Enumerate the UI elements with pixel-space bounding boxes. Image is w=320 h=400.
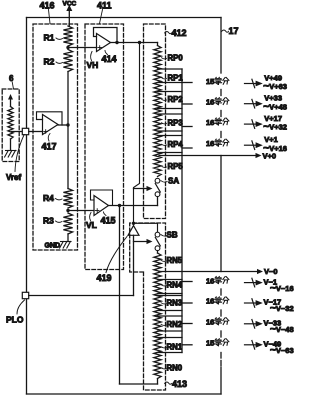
outer block 17 right edge lower segment	[220, 367, 222, 394]
op-amp 417 (Vref buffer)	[43, 115, 59, 135]
RP1 tap box top	[158, 68, 183, 70]
svg-text:413: 413	[172, 379, 187, 389]
VCC supply wire down to R1	[68, 10, 70, 27]
419 input wire down to PLO line	[133, 235, 135, 295]
RP3 tap box bottom	[158, 130, 183, 132]
RP2 tap box bottom	[158, 108, 183, 110]
Vref leader	[15, 135, 24, 172]
resistor in box 6	[8, 107, 13, 140]
RN2 tap box top	[158, 315, 183, 317]
svg-text:RN3: RN3	[167, 299, 183, 308]
junction R4/R3	[66, 209, 69, 212]
wire along bottom to RN0	[120, 383, 158, 385]
bus arrow V+49~V+63	[245, 83, 258, 85]
415 output wire to switch SA	[109, 205, 158, 207]
417 output wire	[58, 124, 68, 126]
ellipsis dash on right edge	[220, 289, 222, 295]
svg-text:RP5: RP5	[168, 162, 184, 171]
resistor R2	[63, 50, 72, 72]
svg-text:411: 411	[97, 1, 112, 11]
wire into RP0	[157, 43, 159, 46]
svg-text:419: 419	[97, 273, 112, 283]
wire SB bottom to RN5	[157, 251, 159, 253]
bus arrow V+33~V+48	[245, 103, 258, 105]
svg-text:16: 16	[206, 297, 214, 306]
svg-text:PLO: PLO	[6, 315, 24, 325]
wire R3 to GND	[67, 234, 69, 242]
dashed ladder box 413 (RN side, with notch around 419)	[130, 223, 166, 390]
switch SA bottom contact	[155, 192, 160, 197]
VCC arrow head	[66, 5, 72, 11]
svg-text:RN1: RN1	[167, 343, 183, 352]
bus arrow V−1~V−16	[245, 282, 258, 284]
switch SA top contact	[155, 178, 160, 183]
RN3 output stub	[182, 302, 192, 304]
bus arrow V+17~V+32	[245, 123, 258, 125]
V-0 output line	[159, 271, 259, 273]
svg-text:GND: GND	[45, 243, 61, 250]
RN resistor ladder string RN5-RN0	[154, 253, 161, 379]
RP2 output stub	[182, 103, 192, 105]
svg-text:414: 414	[102, 54, 117, 64]
leader for label 6	[12, 82, 13, 89]
svg-text:VH: VH	[87, 60, 99, 70]
RP4 tap box bottom	[158, 152, 183, 154]
svg-text:~V+48: ~V+48	[263, 101, 287, 112]
svg-text:RN4: RN4	[167, 281, 183, 290]
svg-text:VL: VL	[86, 220, 97, 230]
svg-text:R4: R4	[43, 193, 54, 203]
ellipsis dash on right edge	[220, 111, 222, 117]
PLO node square	[22, 292, 28, 298]
svg-text:~V−63: ~V−63	[270, 345, 294, 356]
resistor R3	[63, 213, 72, 234]
outer block 17 left edge (through PLO node)	[26, 18, 28, 395]
wire Vref node to op-amp 417 + input	[29, 131, 43, 133]
V+0 arrow head	[256, 153, 262, 158]
tap box right edge rail (RP1 to RN1)	[181, 69, 183, 353]
PLO leader	[17, 300, 25, 314]
ellipsis dash on right edge	[220, 90, 222, 96]
bus arrow V+1~V+16	[245, 144, 258, 146]
junction R1/R2	[66, 46, 69, 49]
switch SB bottom contact	[155, 246, 160, 251]
wire 419 output to SB switch	[134, 223, 158, 232]
switch SA lever	[155, 184, 160, 193]
dashed box 6 (reference source)	[2, 89, 19, 162]
inverter 419	[128, 226, 139, 236]
arrow shaft	[10, 98, 12, 107]
417 feedback loop	[37, 112, 63, 125]
wire to ground in box 6	[10, 139, 12, 150]
wire to SB wiper arrow	[134, 241, 149, 243]
svg-text:RP3: RP3	[168, 119, 184, 128]
junction 414 output to select bus	[138, 41, 141, 44]
svg-text:R3: R3	[43, 216, 54, 226]
RN4 tap box top	[158, 279, 183, 281]
wire R4/R3 junction to 415 + input	[68, 210, 94, 212]
svg-text:Vref: Vref	[6, 173, 21, 182]
svg-text:16: 16	[206, 97, 214, 106]
op-amp 414 VH buffer	[97, 34, 111, 52]
svg-text:412: 412	[172, 28, 187, 38]
bus arrow V−33~V−48	[245, 323, 258, 325]
wire SA bottom to VL line	[157, 197, 159, 206]
wire R2 bottom to R4 top	[67, 72, 69, 189]
wire VL output down to ladder bottom	[119, 206, 121, 385]
RN1 tap box top	[158, 337, 183, 339]
svg-text:417: 417	[42, 141, 57, 151]
RP4 tap box top	[158, 135, 183, 137]
ellipsis dash on right edge	[220, 331, 222, 337]
resistor R4	[63, 189, 72, 209]
svg-text:16: 16	[206, 318, 214, 327]
ground symbol GND	[61, 241, 72, 243]
dashed box 416	[33, 24, 78, 250]
svg-text:RN2: RN2	[167, 320, 183, 329]
svg-text:SA: SA	[168, 177, 179, 186]
415 feedback loop	[91, 190, 113, 206]
svg-text:R1: R1	[44, 33, 55, 43]
414 feedback loop	[94, 28, 118, 43]
RP4 output stub	[182, 147, 192, 149]
switch SB lever	[155, 237, 160, 246]
svg-text:~V+16: ~V+16	[263, 143, 287, 154]
junction 415 output to RN ladder bottom	[118, 204, 121, 207]
svg-text:RN5: RN5	[167, 256, 183, 265]
svg-text:416: 416	[40, 1, 55, 11]
Vref node square	[22, 128, 28, 134]
wire PLO to 419 input	[29, 295, 134, 297]
wire to SA wiper arrow	[134, 188, 149, 190]
ellipsis dash on right edge	[220, 132, 222, 138]
V+0 output line	[159, 155, 257, 157]
svg-text:~V−16: ~V−16	[270, 283, 294, 294]
svg-text:R2: R2	[44, 57, 55, 67]
svg-text:~V−32: ~V−32	[270, 303, 294, 314]
svg-text:15: 15	[206, 339, 214, 348]
ellipsis dash on right edge	[220, 310, 222, 316]
SB wiper arrow head	[147, 239, 153, 244]
current source arrow in box 6	[8, 94, 13, 100]
RN4 tap box bottom	[158, 293, 183, 295]
svg-text:SB: SB	[167, 231, 178, 240]
svg-text:415: 415	[101, 216, 116, 226]
leader 416	[49, 10, 51, 24]
RN3 tap box bottom	[158, 310, 183, 312]
leader 411	[100, 10, 103, 24]
RN4 output stub	[182, 281, 192, 283]
op-amp 415 VL buffer	[94, 196, 109, 216]
outer block 17 right edge upper segment	[220, 18, 222, 74]
SA wiper arrow head	[147, 186, 153, 191]
svg-text:~V+32: ~V+32	[263, 122, 287, 133]
RP1 output stub	[182, 82, 192, 84]
tap wire from box-6 resistor to Vref node	[12, 131, 23, 133]
svg-text:RN0: RN0	[167, 364, 183, 373]
ellipsis dash on right edge	[220, 361, 222, 366]
resistor R1	[63, 26, 72, 46]
RN2 tap box bottom	[158, 330, 183, 332]
RP resistor ladder string RP0-RP5	[154, 46, 161, 177]
svg-text:RP1: RP1	[168, 74, 184, 83]
V-0 arrow head	[257, 269, 263, 274]
ellipsis dash on right edge	[220, 353, 222, 359]
svg-text:~V+63: ~V+63	[263, 81, 287, 92]
svg-text:V−0: V−0	[264, 267, 278, 276]
outer block 17 top edge	[27, 17, 222, 19]
RP3 output stub	[182, 126, 192, 128]
RP3 tap box top	[158, 113, 183, 115]
junction at inverter 419 output	[132, 222, 135, 225]
RN1 output stub	[182, 344, 192, 346]
RP2 tap box top	[158, 91, 183, 93]
select bus from 414 output	[134, 43, 140, 222]
svg-text:16: 16	[206, 276, 214, 285]
ground in box 6	[6, 150, 17, 152]
svg-text:16: 16	[206, 139, 214, 148]
dashed ladder box 412 (RP side)	[144, 24, 166, 219]
junction 414 output/feedback	[115, 41, 118, 44]
RN1 tap box bottom	[158, 352, 183, 354]
junction 417 output on string	[66, 123, 69, 126]
RN2 output stub	[182, 323, 192, 325]
414 output wire to ladder top	[111, 42, 158, 44]
svg-text:16: 16	[206, 118, 214, 127]
svg-text:6: 6	[9, 74, 14, 83]
bus arrow V−49~V−63	[245, 344, 258, 346]
right bus linking V+0 and V-0 lines	[220, 156, 222, 272]
svg-text:RP2: RP2	[168, 95, 184, 104]
svg-text:RP4: RP4	[168, 140, 184, 149]
RN3 tap box top	[158, 295, 183, 297]
svg-text:RP0: RP0	[168, 54, 184, 63]
dashed box 411	[85, 24, 124, 270]
svg-text:~V−48: ~V−48	[270, 324, 294, 335]
wire R1/R2 junction to 414 + input	[68, 47, 97, 49]
bus arrow V−17~V−32	[245, 302, 258, 304]
RN0 bottom wire	[157, 379, 159, 385]
svg-text:17: 17	[229, 26, 239, 36]
switch SB top contact	[155, 232, 160, 237]
svg-text:15: 15	[206, 77, 214, 86]
outer block 17 bottom edge	[27, 393, 222, 395]
RP1 tap box bottom	[158, 82, 183, 84]
